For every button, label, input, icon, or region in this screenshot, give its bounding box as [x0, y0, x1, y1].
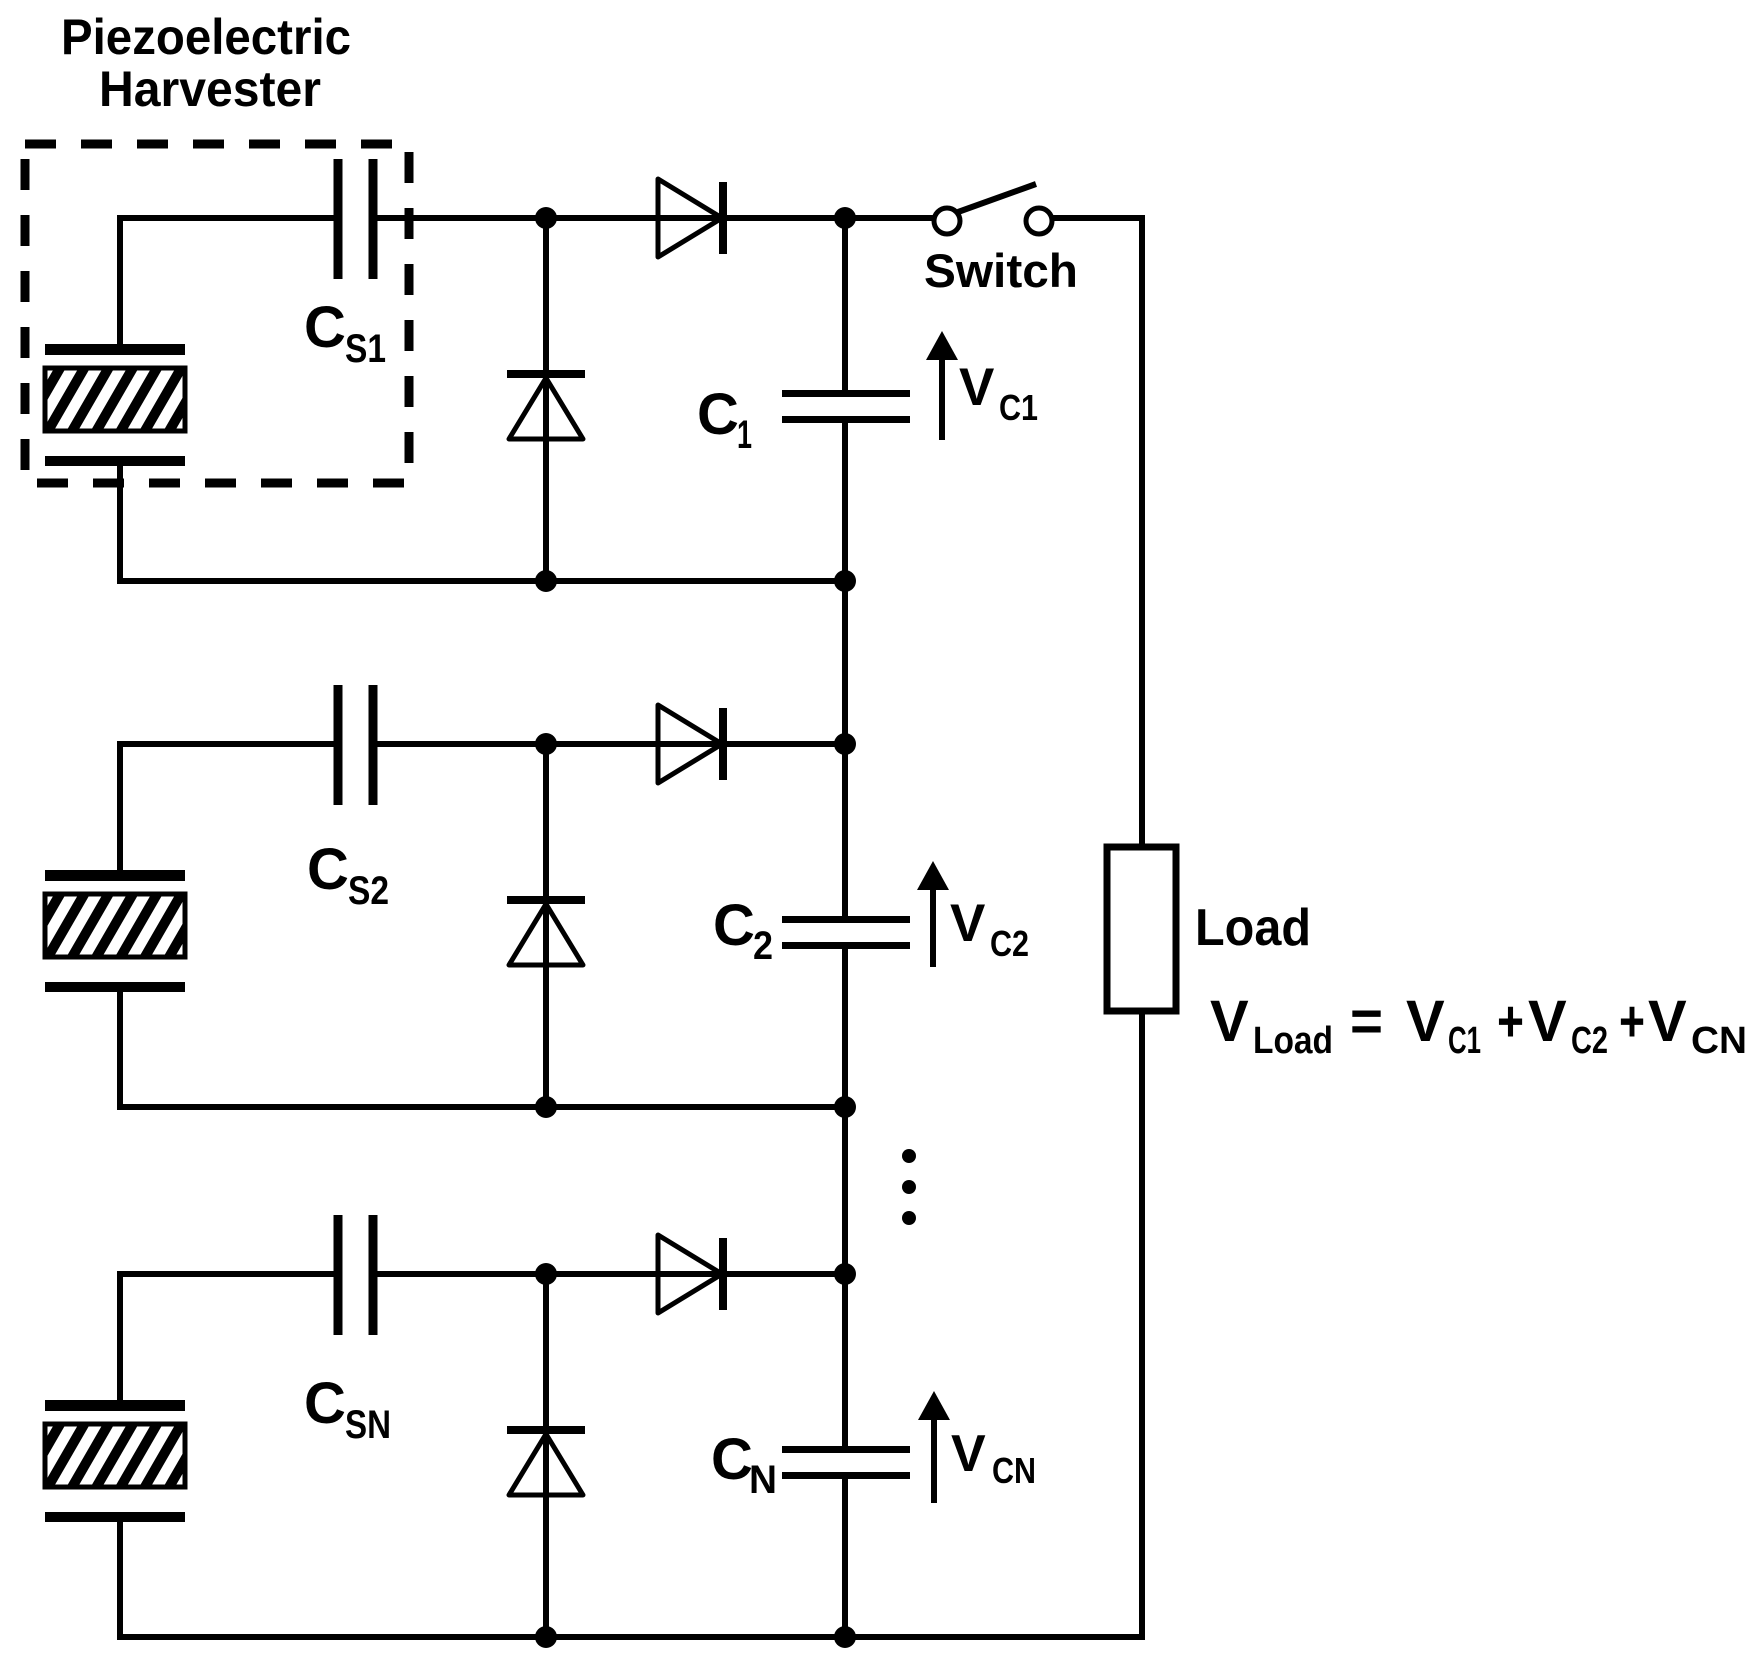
svg-text:SN: SN: [345, 1403, 391, 1447]
svg-text:CN: CN: [992, 1450, 1036, 1491]
svg-text:S2: S2: [348, 869, 389, 913]
svg-text:C1: C1: [999, 387, 1038, 428]
svg-text:Piezoelectric: Piezoelectric: [61, 9, 351, 65]
svg-text:V: V: [1406, 989, 1445, 1054]
svg-text:V: V: [1648, 989, 1687, 1054]
svg-text:V: V: [951, 1425, 986, 1483]
svg-text:V: V: [959, 358, 994, 417]
svg-text:Harvester: Harvester: [99, 61, 321, 117]
svg-text:V: V: [950, 894, 985, 953]
svg-text:C: C: [304, 295, 346, 360]
svg-text:C: C: [711, 1427, 753, 1492]
svg-text:+: +: [1497, 989, 1524, 1054]
svg-text:1: 1: [737, 413, 752, 457]
svg-text:C2: C2: [1571, 1020, 1608, 1062]
svg-text:N: N: [749, 1458, 777, 1502]
svg-text:C: C: [713, 893, 755, 958]
svg-text:C: C: [697, 382, 739, 447]
svg-text:+: +: [1619, 989, 1645, 1054]
svg-text:V: V: [1210, 989, 1249, 1054]
svg-text:C2: C2: [990, 923, 1029, 964]
svg-text:Switch: Switch: [924, 244, 1078, 297]
svg-text:C: C: [304, 1371, 346, 1436]
svg-text:=: =: [1350, 989, 1383, 1054]
svg-text:Load: Load: [1195, 899, 1311, 957]
svg-text:V: V: [1528, 989, 1567, 1054]
svg-text:C: C: [307, 837, 349, 902]
svg-text:2: 2: [753, 924, 773, 968]
svg-text:CN: CN: [1691, 1020, 1747, 1062]
svg-text:Load: Load: [1253, 1020, 1333, 1062]
svg-text:S1: S1: [345, 327, 386, 371]
svg-text:C1: C1: [1448, 1020, 1481, 1062]
